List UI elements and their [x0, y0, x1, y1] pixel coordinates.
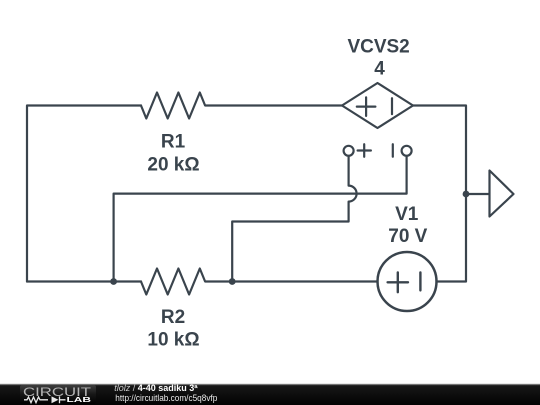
svg-text:R2: R2	[161, 307, 185, 328]
output node flag (triangle)	[490, 171, 514, 217]
VCVS control terminal right (open circle)	[402, 146, 412, 156]
svg-text:V1: V1	[395, 204, 419, 225]
logo resistor squiggle	[24, 397, 48, 403]
VCVS2 plus symbol	[357, 97, 376, 116]
control minus bar	[392, 144, 394, 157]
resistor R1	[141, 93, 342, 119]
voltage source V1 (circle)	[378, 252, 437, 311]
svg-text:70 V: 70 V	[388, 226, 427, 247]
wire: right control terminal down, left, down to bottom wire	[114, 156, 407, 282]
svg-text:http://circuitlab.com/c5q8vfp: http://circuitlab.com/c5q8vfp	[115, 393, 217, 404]
wire: stub to output flag	[466, 193, 490, 195]
control plus symbol	[358, 144, 371, 157]
wire: VCVS2 right to right rail down to V1	[413, 106, 466, 282]
logo diode	[52, 396, 59, 403]
VCVS source VCVS2 (diamond)	[342, 83, 413, 128]
V1 minus bar	[419, 272, 421, 290]
VCVS control terminal left (open circle)	[344, 146, 354, 156]
svg-text:LAB: LAB	[67, 397, 92, 404]
wire: left control terminal down with hop, left, down to bottom wire	[232, 156, 356, 282]
svg-text:R1: R1	[161, 132, 186, 153]
V1 plus symbol	[388, 272, 408, 292]
svg-text:tlolz / 4-40 sadiku 3ª: tlolz / 4-40 sadiku 3ª	[114, 383, 198, 393]
wire: bottom wire left segment to R2	[27, 280, 141, 282]
svg-text:4: 4	[374, 59, 385, 80]
svg-text:VCVS2: VCVS2	[347, 36, 409, 57]
resistor R2	[141, 269, 378, 295]
VCVS2 minus bar	[391, 98, 393, 114]
junction node on right rail	[463, 191, 470, 198]
junction node on bottom wire (right)	[229, 278, 236, 285]
svg-text:10 kΩ: 10 kΩ	[147, 330, 199, 351]
CircuitLab logo badge	[20, 385, 96, 404]
wire: left rail and top wire to R1	[27, 106, 141, 282]
svg-text:20 kΩ: 20 kΩ	[147, 155, 199, 176]
footer bar	[0, 384, 540, 405]
junction node on bottom wire (left)	[110, 278, 117, 285]
